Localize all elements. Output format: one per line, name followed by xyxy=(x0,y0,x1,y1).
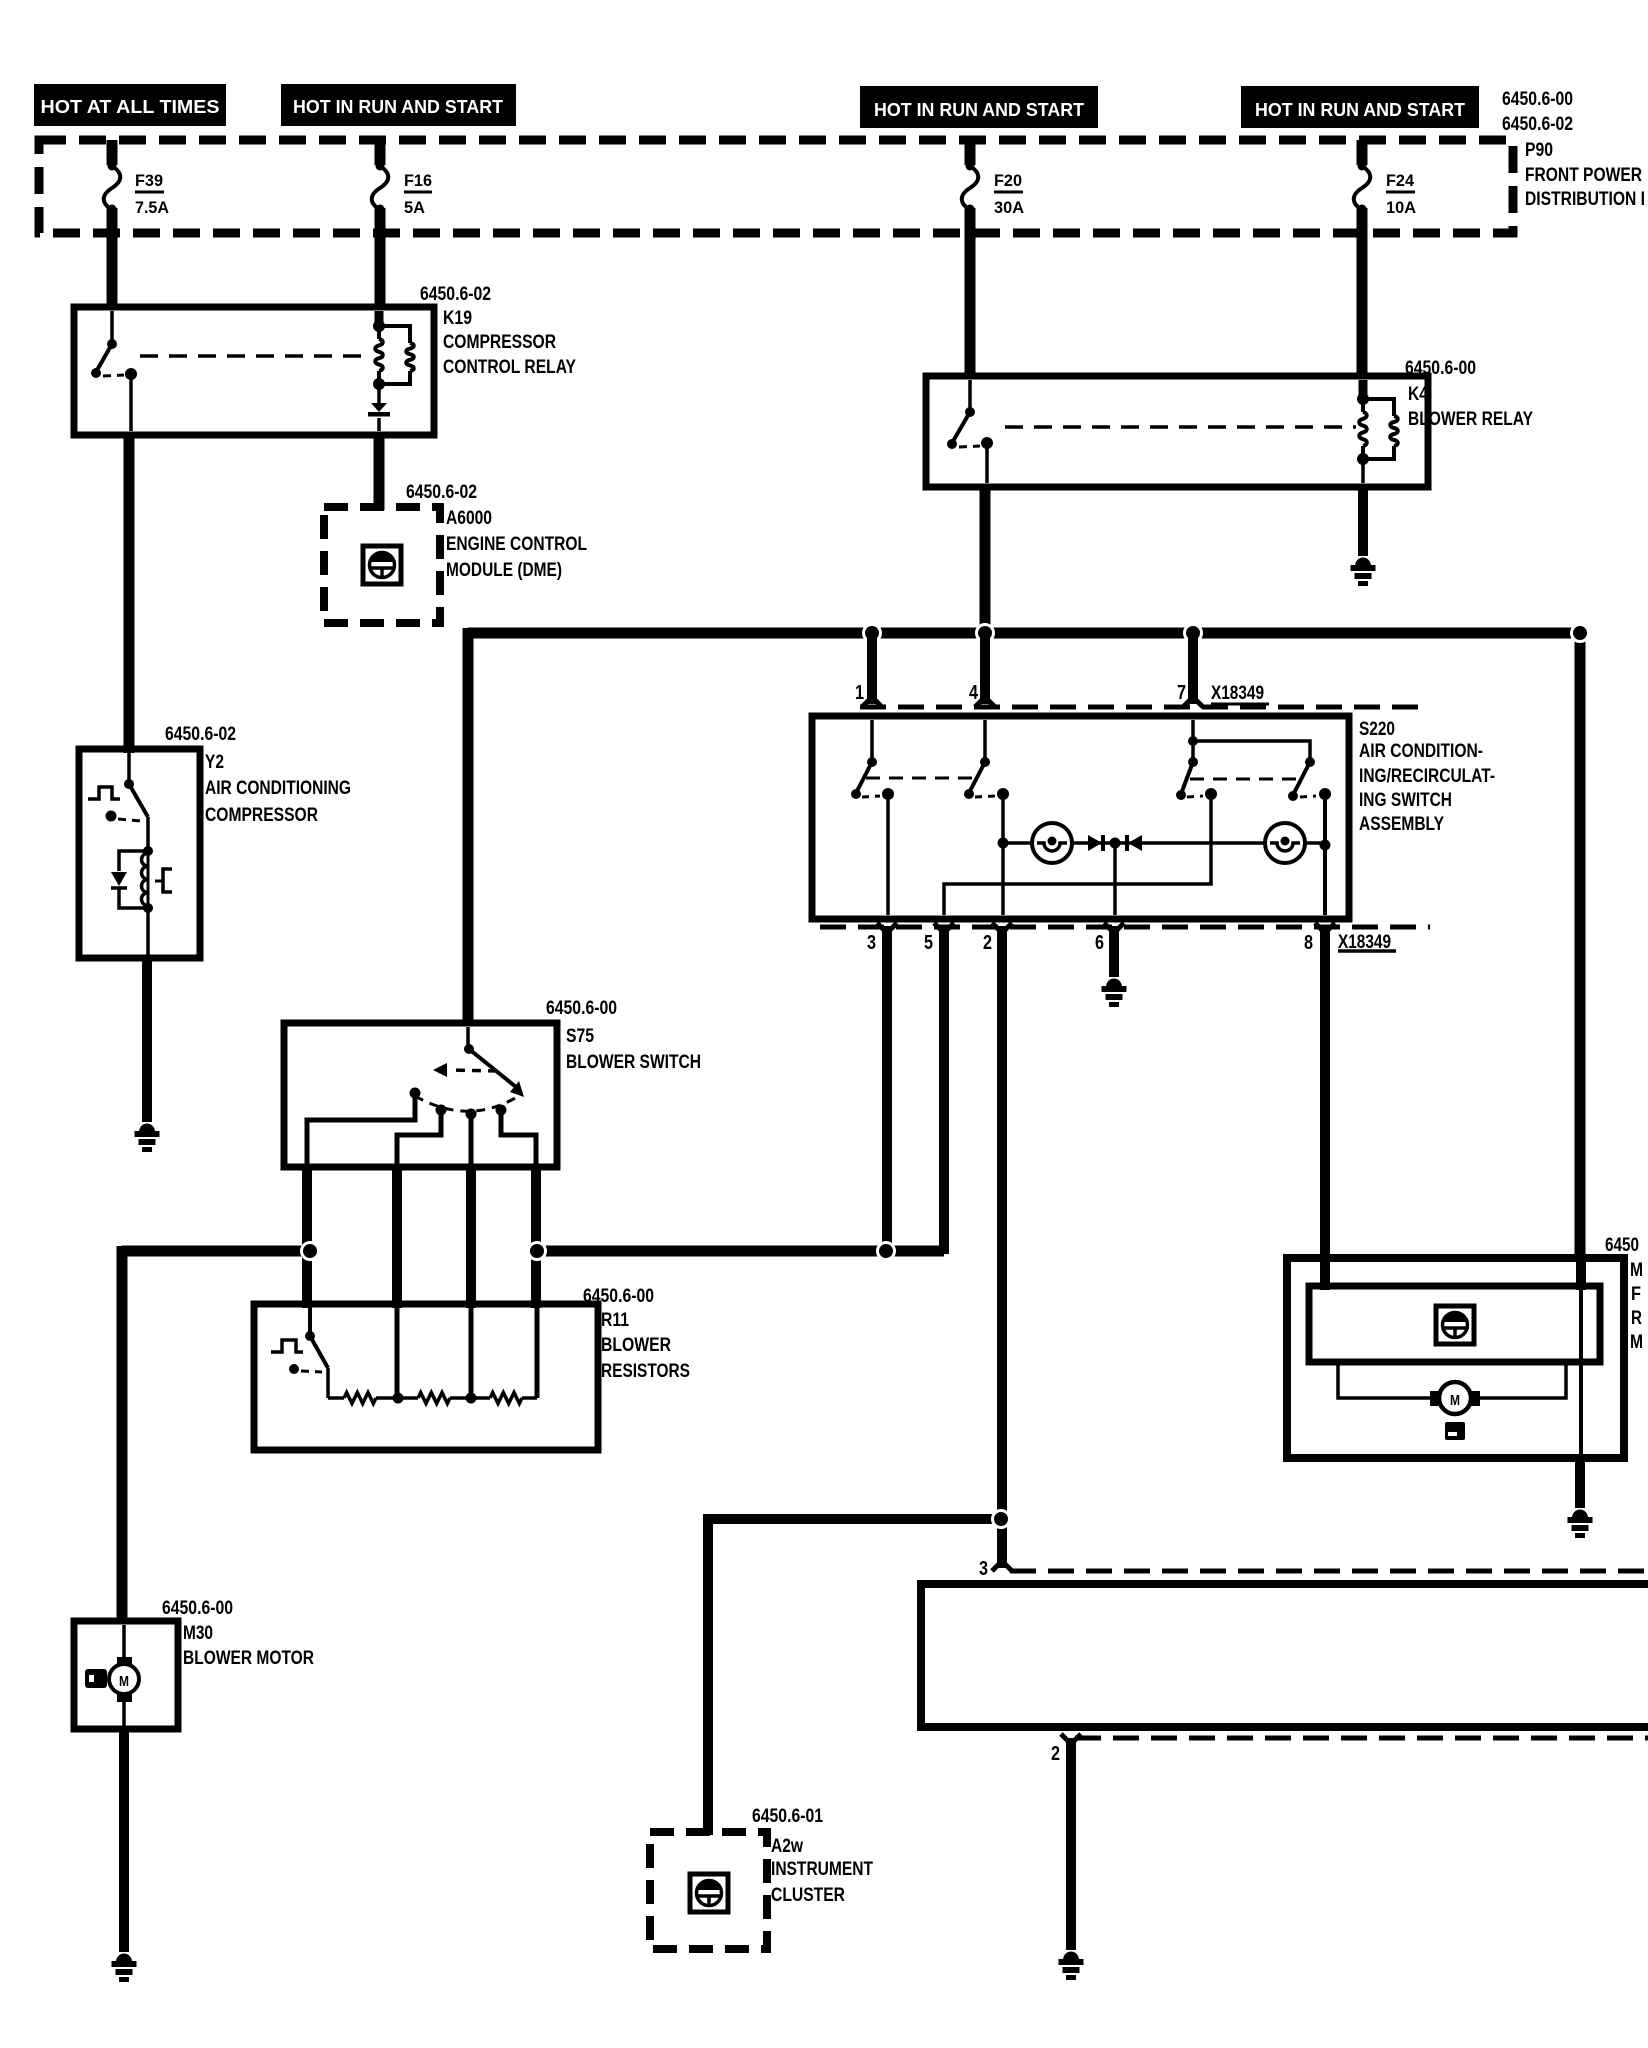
wire S220 pin 5 to lower bus end xyxy=(934,923,954,1254)
bus junction node pin7 xyxy=(1185,625,1202,642)
S220 pin 7 feed xyxy=(1188,720,1315,767)
M30 labels xyxy=(162,1598,314,1669)
svg-text:HOT IN RUN AND START: HOT IN RUN AND START xyxy=(293,97,503,117)
svg-text:M: M xyxy=(119,1673,129,1690)
P90 labels xyxy=(1502,89,1645,210)
svg-text:6450.6-00: 6450.6-00 xyxy=(1502,89,1573,110)
svg-text:6: 6 xyxy=(1095,932,1104,954)
S75 labels xyxy=(546,998,701,1073)
fuse F24 10A xyxy=(1354,140,1416,379)
fresh air box ground xyxy=(1572,1510,1588,1519)
X18349 bottom labels xyxy=(867,932,1396,954)
svg-text:ING SWITCH: ING SWITCH xyxy=(1359,790,1452,811)
fresh air inner control box xyxy=(1309,1286,1600,1362)
bus junction node right corner xyxy=(1572,625,1589,642)
Y2 labels xyxy=(165,724,351,826)
bus junction node pin4 xyxy=(977,625,994,642)
svg-text:6450.6-00: 6450.6-00 xyxy=(546,998,617,1019)
fuse F20 30A xyxy=(962,140,1024,379)
R11 internal wires xyxy=(397,1308,537,1398)
svg-text:X18349: X18349 xyxy=(1211,683,1264,704)
svg-text:6450.6-00: 6450.6-00 xyxy=(583,1286,654,1307)
svg-text:M: M xyxy=(1450,1392,1460,1409)
Y2 output wire + ground xyxy=(147,908,148,1122)
svg-text:1: 1 xyxy=(855,682,864,704)
S220 switch 1 (pin1 to pin3) xyxy=(851,720,894,915)
svg-text:BLOWER: BLOWER xyxy=(601,1335,671,1356)
svg-text:HOT AT ALL TIMES: HOT AT ALL TIMES xyxy=(41,97,220,117)
header label HOT IN RUN AND START (F16) xyxy=(281,84,516,126)
svg-text:5: 5 xyxy=(924,932,933,954)
heater box bottom dashed connector line xyxy=(1075,1736,1648,1741)
svg-text:6450.6-02: 6450.6-02 xyxy=(1502,114,1573,135)
S220 indicator lamp 1 xyxy=(1032,823,1072,863)
svg-text:COMPRESSOR: COMPRESSOR xyxy=(205,805,318,826)
S220 switch 3 (pin7 to pin5) xyxy=(944,762,1217,915)
K19 coil output arrow xyxy=(368,384,390,431)
wire M30 to ground xyxy=(119,1729,129,1952)
K19 mechanical link (dashed) xyxy=(140,354,370,358)
wires S75 to R11 xyxy=(307,1167,536,1308)
S75 blower switch box xyxy=(284,1023,557,1167)
fresh air box labels (clipped) xyxy=(1605,1235,1643,1353)
R11 resistor chain xyxy=(328,1393,537,1404)
fresh air feedback potentiometer mark B xyxy=(1445,1422,1465,1440)
svg-text:3: 3 xyxy=(979,1558,988,1580)
svg-text:K4: K4 xyxy=(1408,384,1428,405)
K19 switch xyxy=(91,311,137,431)
svg-text:6450.6-02: 6450.6-02 xyxy=(406,482,477,503)
main bus wire (y=633) xyxy=(468,628,1580,639)
lower bus right segment xyxy=(535,1246,944,1257)
Y2 suppression diode xyxy=(111,851,148,908)
svg-text:7: 7 xyxy=(1177,682,1186,704)
svg-text:S75: S75 xyxy=(566,1026,594,1047)
S75 contact wires xyxy=(307,1093,536,1164)
junction node pin2/A2w xyxy=(993,1511,1010,1528)
svg-text:6450: 6450 xyxy=(1605,1235,1639,1256)
wire K4 switch output down to bus xyxy=(980,486,991,633)
S220 switch 2 (pin4 to pin2) xyxy=(964,720,1009,915)
fuse F16 5A xyxy=(372,140,432,310)
heater control box (partial, bottom right) xyxy=(921,1584,1648,1727)
svg-text:F20: F20 xyxy=(994,171,1022,190)
svg-text:HOT IN RUN AND START: HOT IN RUN AND START xyxy=(1255,100,1465,120)
svg-text:7.5A: 7.5A xyxy=(135,198,169,217)
svg-text:4: 4 xyxy=(969,682,979,704)
wire S220 pin2 branch to A2w xyxy=(708,1514,1001,1835)
A6000 module icon xyxy=(363,546,401,584)
M30 blower motor box xyxy=(74,1621,178,1729)
header label HOT AT ALL TIMES xyxy=(34,84,226,126)
svg-text:AIR CONDITION-: AIR CONDITION- xyxy=(1359,741,1483,762)
svg-text:MODULE (DME): MODULE (DME) xyxy=(446,560,562,581)
svg-text:CLUSTER: CLUSTER xyxy=(771,1885,845,1906)
lower bus junction (S220 pin 3) xyxy=(878,1243,895,1260)
S220 diode 2 xyxy=(1127,835,1142,851)
svg-text:A2w: A2w xyxy=(771,1836,803,1857)
svg-text:BLOWER SWITCH: BLOWER SWITCH xyxy=(566,1052,701,1073)
svg-text:6450.6-00: 6450.6-00 xyxy=(1405,358,1476,379)
K19 coil xyxy=(373,311,414,390)
svg-text:K19: K19 xyxy=(443,308,472,329)
fresh air flap motor xyxy=(1338,1364,1566,1414)
S220 lamp line junction at pin 8 xyxy=(1320,840,1331,851)
A2w module icon xyxy=(690,1874,728,1912)
svg-text:ASSEMBLY: ASSEMBLY xyxy=(1359,814,1444,835)
svg-text:P90: P90 xyxy=(1525,140,1553,161)
svg-text:6450.6-02: 6450.6-02 xyxy=(420,284,491,305)
svg-text:ING/RECIRCULAT-: ING/RECIRCULAT- xyxy=(1359,766,1495,787)
X18349 top labels xyxy=(855,682,1269,704)
wire K19 coil to A6000 xyxy=(374,434,385,510)
wire S220 pin 3 to lower bus xyxy=(877,923,897,1251)
wire bus to S220 pin 7 xyxy=(1183,638,1203,707)
svg-text:2: 2 xyxy=(983,932,992,954)
relay K19 compressor control relay box xyxy=(74,307,434,435)
svg-text:INSTRUMENT: INSTRUMENT xyxy=(771,1859,873,1880)
svg-text:M: M xyxy=(1630,1260,1643,1281)
S220 A/C recirculating switch assembly box xyxy=(812,716,1349,919)
K4 ground xyxy=(1355,558,1371,567)
svg-text:BLOWER MOTOR: BLOWER MOTOR xyxy=(183,1648,314,1669)
svg-text:F24: F24 xyxy=(1386,171,1415,190)
lower bus left segment (to M30) xyxy=(122,1246,312,1257)
svg-text:6450.6-00: 6450.6-00 xyxy=(162,1598,233,1619)
svg-text:8: 8 xyxy=(1304,932,1313,954)
wire S220 pin 6 to ground xyxy=(1104,923,1124,977)
svg-text:F16: F16 xyxy=(404,171,432,190)
S220 link switches 1-2 (dashed) xyxy=(866,777,978,780)
S220 switch 4 (to pin8) xyxy=(1288,762,1331,915)
Y2 air conditioning compressor box xyxy=(79,749,200,958)
connector X18349 top dashed line xyxy=(860,705,1430,710)
wire K19 switch output to Y2 xyxy=(124,434,135,753)
svg-text:Y2: Y2 xyxy=(205,752,224,773)
wire S220 pin 8 to fresh air box xyxy=(1315,923,1335,1262)
svg-text:F39: F39 xyxy=(135,171,163,190)
wire bus to S75 blower switch xyxy=(463,628,474,1026)
bus junction node pin1 xyxy=(864,625,881,642)
fresh air fan icon xyxy=(1436,1306,1474,1344)
svg-text:5A: 5A xyxy=(404,198,425,217)
svg-text:HOT IN RUN AND START: HOT IN RUN AND START xyxy=(874,100,1084,120)
svg-text:A6000: A6000 xyxy=(446,508,492,529)
K4 labels xyxy=(1405,358,1533,430)
lower bus junction (S75 wire 1) xyxy=(302,1243,319,1260)
wire S220 pin 2 down to heater control box xyxy=(992,923,1012,1571)
wire heater box pin 2 to ground xyxy=(1061,1734,1081,1950)
S220 lamp circuit line xyxy=(998,838,1326,849)
relay K4 blower relay box xyxy=(926,376,1428,487)
svg-text:R11: R11 xyxy=(601,1310,629,1331)
heater box pin 2 ground xyxy=(1063,1952,1079,1961)
wire bus to S220 pin 1 xyxy=(862,638,882,707)
R11 labels xyxy=(583,1286,690,1382)
wire bus to fresh air box (right) xyxy=(1575,628,1586,1262)
svg-text:DISTRIBUTION I: DISTRIBUTION I xyxy=(1525,189,1645,210)
svg-text:FRONT POWER: FRONT POWER xyxy=(1525,165,1642,186)
Y2 ground xyxy=(139,1124,155,1133)
R11 thermal switch xyxy=(271,1308,328,1398)
svg-text:RESISTORS: RESISTORS xyxy=(601,1361,690,1382)
fresh air-recirculation flap box xyxy=(1287,1258,1624,1458)
S220 diode junction to pin 6 xyxy=(1110,838,1121,916)
svg-text:2: 2 xyxy=(1051,1743,1060,1765)
fresh air box entry wires xyxy=(1325,1260,1581,1454)
svg-text:6450.6-02: 6450.6-02 xyxy=(165,724,236,745)
connector X18349 bottom dashed line xyxy=(820,925,1430,930)
S75 rotary switch xyxy=(410,1027,525,1120)
A6000 labels xyxy=(406,482,587,581)
heater box top dashed connector line xyxy=(1010,1569,1648,1574)
Y2 clutch link xyxy=(155,869,172,892)
svg-text:30A: 30A xyxy=(994,198,1024,217)
svg-text:S220: S220 xyxy=(1359,719,1395,740)
S220 labels xyxy=(1359,719,1495,835)
S220 link switches 3-4 (dashed) xyxy=(1190,778,1298,781)
svg-text:COMPRESSOR: COMPRESSOR xyxy=(443,332,556,353)
A2w labels xyxy=(752,1806,873,1906)
K19 labels xyxy=(420,284,576,378)
fuse F39 7.5A xyxy=(104,140,169,310)
S220 pin 6 ground xyxy=(1106,979,1122,988)
Y2 clutch solenoid coil xyxy=(142,846,154,913)
K4 switch xyxy=(947,380,993,483)
svg-text:F: F xyxy=(1631,1284,1641,1305)
wire bus to S220 pin 4 xyxy=(975,638,995,707)
wire fresh air box to ground xyxy=(1575,1456,1585,1508)
header label HOT IN RUN AND START (F24) xyxy=(1241,86,1479,128)
M30 motor xyxy=(109,1625,139,1726)
svg-text:R: R xyxy=(1631,1308,1642,1329)
P90 front power distribution box (dashed) xyxy=(39,140,1513,233)
svg-text:AIR CONDITIONING: AIR CONDITIONING xyxy=(205,778,351,799)
header label HOT IN RUN AND START (F20) xyxy=(860,86,1098,128)
K4 mechanical link (dashed) xyxy=(1005,425,1356,429)
lower bus junction (S75 wire 4) xyxy=(529,1243,546,1260)
svg-text:BLOWER RELAY: BLOWER RELAY xyxy=(1408,409,1533,430)
svg-text:6450.6-01: 6450.6-01 xyxy=(752,1806,823,1827)
svg-text:ENGINE CONTROL: ENGINE CONTROL xyxy=(446,534,587,555)
K4 coil ground wire xyxy=(1358,486,1368,556)
M30 ground xyxy=(116,1954,132,1963)
A2w instrument cluster box (dashed) xyxy=(650,1832,767,1949)
svg-text:10A: 10A xyxy=(1386,198,1416,217)
svg-text:M: M xyxy=(1630,1332,1643,1353)
K4 coil xyxy=(1357,380,1398,483)
svg-text:CONTROL RELAY: CONTROL RELAY xyxy=(443,357,576,378)
S220 indicator lamp 2 xyxy=(1265,823,1305,863)
svg-text:3: 3 xyxy=(867,932,876,954)
svg-text:M30: M30 xyxy=(183,1623,213,1644)
S220 diode 1 xyxy=(1088,835,1103,851)
M30 connector mark xyxy=(85,1669,107,1688)
Y2 pressure switch xyxy=(88,753,148,851)
wire lower bus to M30 blower motor xyxy=(117,1246,128,1624)
R11 blower resistors box xyxy=(254,1304,598,1450)
A6000 engine control module box (dashed) xyxy=(324,507,440,623)
